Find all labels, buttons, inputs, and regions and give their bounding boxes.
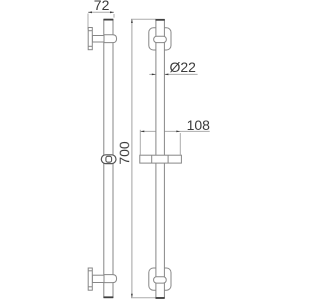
bottom bracket arm (side view): [92, 275, 104, 282]
dimension 700 line: [131, 19, 133, 297]
left view rail (side): [104, 20, 113, 298]
left view rail bottom end cap: [104, 296, 114, 298]
bottom bracket clamp around rail: [104, 275, 117, 283]
slider knob inner ring: [106, 156, 112, 162]
bottom wall flange (side view): [88, 268, 92, 290]
front view rail bottom end cap: [156, 297, 165, 299]
dimension 108 line: [140, 130, 209, 132]
dimension 108 extension lines: [140, 130, 180, 155]
dimension label O22: [170, 59, 197, 75]
front view rail: [156, 20, 165, 298]
dimension label 108: [187, 117, 211, 133]
top wall flange edge lines: [88, 31, 92, 47]
top bracket clamp around rail: [104, 35, 117, 43]
slider knob (side view) stadium: [101, 155, 116, 164]
dimension O22 line left segment with arrow: [149, 74, 156, 76]
front view bottom collar: [154, 277, 167, 283]
dimension label 700 (rotated): [116, 141, 132, 165]
front view slider bracket: [140, 155, 182, 163]
top wall flange (side view): [88, 28, 92, 50]
top bracket arm (side view): [92, 36, 104, 43]
front view top collar: [154, 36, 167, 42]
dimension 72 extension lines: [88, 14, 114, 30]
dimension 72 line: [88, 11, 114, 13]
dimension 700 extension line bottom: [131, 297, 156, 299]
front view top escutcheon square: [149, 28, 171, 50]
dimension 700 extension line top: [131, 18, 156, 20]
front view bottom escutcheon square: [149, 268, 171, 290]
bottom wall flange edge lines: [88, 271, 92, 287]
svg-text:Ø22: Ø22: [170, 59, 197, 75]
front view rail top end cap: [156, 19, 165, 21]
dimension O22 line right segment with arrow: [164, 74, 197, 76]
svg-text:72: 72: [94, 0, 110, 13]
dimension 700 arrows: [131, 19, 133, 298]
dimension 108 arrows: [140, 131, 180, 133]
front view slider bracket segment lines: [152, 155, 168, 163]
dimension label 72: [94, 0, 110, 13]
svg-text:700: 700: [116, 141, 132, 165]
svg-text:108: 108: [187, 117, 211, 133]
left view rail top end cap: [104, 19, 114, 21]
dimension 72 arrows: [88, 11, 114, 13]
